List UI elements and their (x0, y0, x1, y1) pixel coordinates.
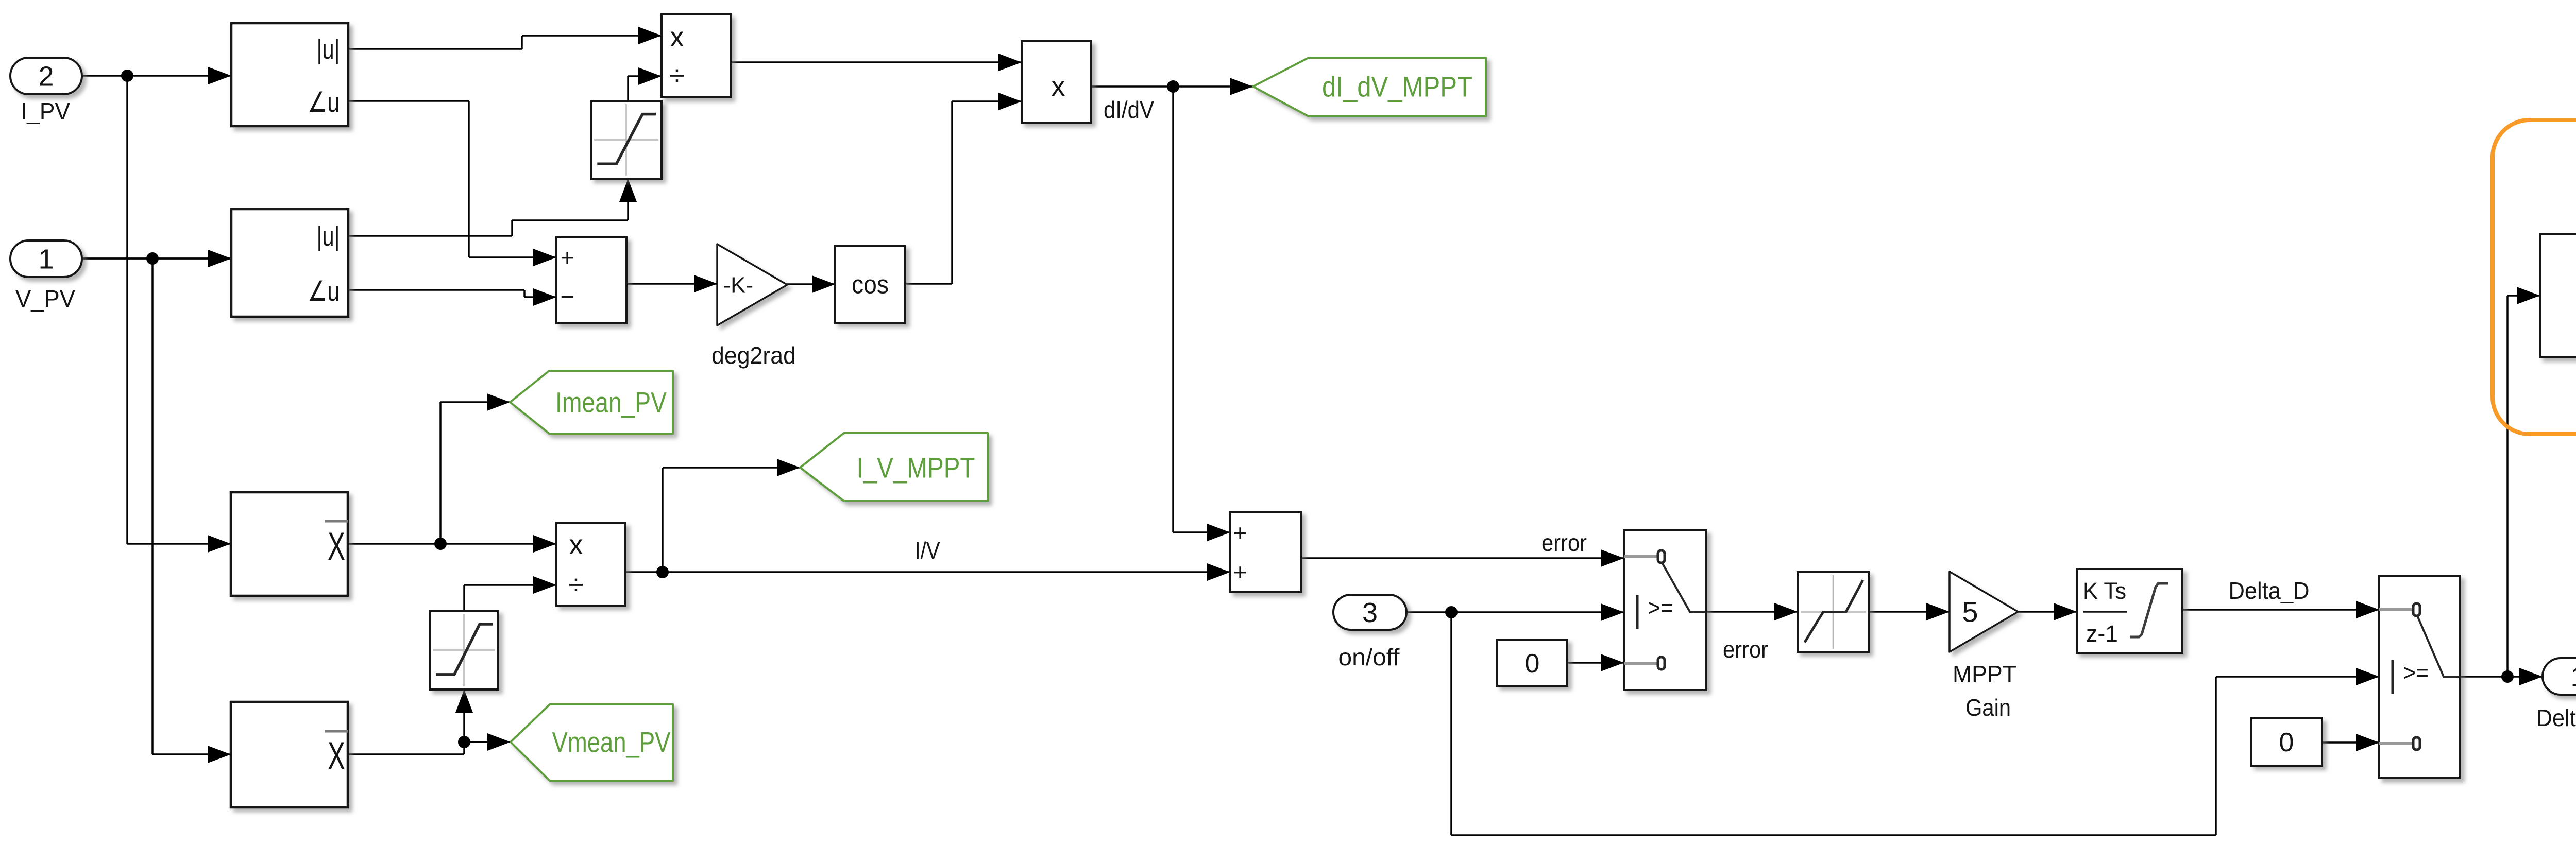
svg-text:−: − (561, 283, 574, 310)
svg-text:÷: ÷ (568, 570, 584, 600)
svg-text:|u|: |u| (317, 34, 340, 65)
svg-text:MPPT: MPPT (1953, 661, 2016, 687)
svg-text:I_PV: I_PV (21, 98, 70, 125)
svg-text:K Ts: K Ts (2083, 578, 2126, 604)
svg-text:x: x (569, 529, 583, 560)
svg-text:1: 1 (2570, 661, 2576, 692)
svg-text:Gain: Gain (1965, 694, 2011, 721)
svg-text:|u|: |u| (317, 221, 340, 252)
svg-text:I/V: I/V (915, 537, 940, 564)
svg-text:5: 5 (1962, 596, 1978, 628)
svg-text:z-1: z-1 (2086, 620, 2118, 647)
svg-text:>=: >= (2403, 659, 2429, 686)
svg-text:>=: >= (1648, 594, 1673, 621)
svg-text:Delta_D: Delta_D (2229, 577, 2310, 604)
svg-text:deg2rad: deg2rad (711, 342, 796, 369)
svg-text:+: + (1233, 559, 1247, 585)
svg-text:X: X (328, 734, 345, 778)
svg-text:error: error (1541, 529, 1587, 556)
svg-text:Imean_PV: Imean_PV (555, 386, 667, 419)
svg-text:I_V_MPPT: I_V_MPPT (857, 452, 975, 484)
svg-text:∠u: ∠u (308, 276, 340, 307)
svg-text:dI/dV: dI/dV (1104, 96, 1154, 123)
svg-text:X: X (328, 525, 345, 568)
svg-text:+: + (561, 244, 574, 271)
svg-text:V_PV: V_PV (15, 285, 75, 312)
svg-text:2: 2 (38, 61, 54, 92)
svg-text:Vmean_PV: Vmean_PV (552, 726, 671, 758)
svg-text:1: 1 (38, 244, 54, 274)
svg-text:Delta_D: Delta_D (2536, 704, 2576, 731)
svg-text:0: 0 (1525, 649, 1540, 679)
svg-text:x: x (670, 22, 684, 53)
svg-text:dI_dV_MPPT: dI_dV_MPPT (1322, 71, 1472, 103)
svg-text:on/off: on/off (1338, 644, 1400, 670)
svg-text:÷: ÷ (669, 60, 685, 91)
svg-text:error: error (1723, 636, 1768, 663)
svg-text:-K-: -K- (723, 272, 753, 298)
svg-text:x: x (1052, 71, 1065, 102)
svg-text:3: 3 (1362, 597, 1378, 628)
svg-text:cos: cos (852, 270, 889, 299)
svg-text:+: + (1233, 520, 1247, 546)
svg-text:0: 0 (2279, 728, 2294, 757)
svg-text:∠u: ∠u (308, 87, 340, 118)
